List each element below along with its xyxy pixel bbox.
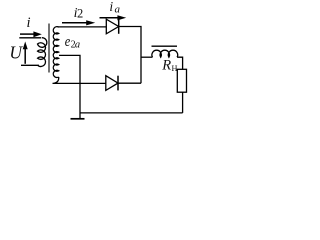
wire secondary bottom to diode Vb	[53, 77, 106, 83]
wire center tap to ground	[59, 55, 80, 118]
label ia	[109, 0, 120, 15]
svg-text:i: i	[109, 0, 113, 14]
wire bottom rail	[80, 112, 183, 114]
svg-text:i: i	[27, 15, 31, 31]
resistor RH	[177, 69, 186, 92]
svg-text:Н: Н	[172, 64, 178, 73]
label i2	[74, 6, 84, 21]
voltage arrow U	[23, 42, 28, 64]
transformer core	[48, 24, 50, 73]
choke iron core line	[152, 45, 178, 47]
diode Va (top)	[106, 19, 118, 34]
wire top-left input	[19, 37, 41, 39]
label RH	[161, 57, 177, 73]
inductor choke winding	[152, 50, 178, 57]
wire diode Vb to common cathode node	[118, 82, 141, 84]
inductor primary winding	[38, 38, 47, 67]
svg-text:a: a	[75, 39, 80, 50]
wire choke to resistor	[177, 57, 183, 69]
svg-text:U: U	[9, 42, 23, 62]
wire diode Va to common cathode node	[119, 27, 141, 84]
svg-text:2: 2	[77, 7, 83, 21]
svg-text:a: a	[115, 3, 121, 15]
svg-text:R: R	[161, 57, 171, 73]
wire node to choke	[141, 56, 153, 58]
diode Vb (bottom)	[106, 76, 118, 91]
wire resistor to bottom rail	[182, 92, 184, 113]
current arrow i	[20, 31, 42, 37]
current arrow i2	[62, 20, 95, 25]
wire secondary top to diode	[58, 26, 107, 28]
svg-text:e: e	[65, 34, 71, 50]
label e2a	[65, 34, 80, 51]
current arrow ia	[100, 15, 127, 20]
ground	[71, 118, 85, 120]
inductor secondary winding	[53, 27, 58, 78]
wire bottom-left input	[21, 64, 39, 66]
